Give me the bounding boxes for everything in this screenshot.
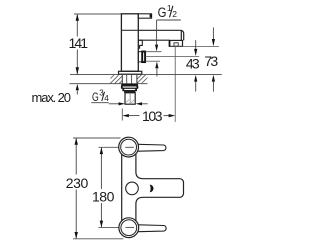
shank inner lines — [126, 75, 128, 84]
body strip and spout arm — [122, 150, 184, 225]
fitting top extension line — [145, 51, 161, 53]
fitting center extension line — [145, 56, 199, 58]
dim 180 bottom extension line — [99, 226, 125, 228]
top lever bar — [134, 144, 166, 151]
103 dim line with arrows — [122, 114, 129, 117]
G 3/4 leader line right — [142, 103, 148, 105]
dim 180 arrow up — [100, 147, 103, 154]
aerator outlet extension line — [170, 46, 219, 48]
fitting bottom extension line — [145, 60, 160, 62]
tail pipe thread marks — [126, 99, 134, 103]
dim 73 lower arrow up — [212, 75, 215, 82]
dim 73 upper stem — [212, 27, 214, 39]
bottom lever bar — [134, 225, 167, 232]
deck top line — [70, 74, 222, 76]
bottom handle outer circle — [119, 218, 139, 238]
dimension 141 line — [76, 14, 78, 36]
max 20 lower stem — [76, 90, 78, 94]
dim 43 lower arrow up — [194, 75, 197, 82]
aerator — [169, 40, 182, 46]
svg-text:2: 2 — [172, 9, 177, 19]
locknut top band — [121, 84, 138, 86]
svg-text:max. 20: max. 20 — [32, 90, 72, 105]
G 3/4 arrow left — [136, 102, 142, 105]
G 1/2 leader underline — [157, 19, 181, 21]
tail pipe centerline — [129, 93, 131, 104]
dimension 141 arrow down — [76, 67, 79, 74]
G 3/4 fraction slash — [102, 92, 105, 101]
G 1/2 lower arrow stem — [156, 68, 158, 76]
deck bottom line — [70, 83, 148, 85]
dim 73 lower stem — [212, 82, 214, 92]
dimension 141 arrow up — [76, 14, 79, 21]
lever handle — [138, 14, 151, 18]
103 left extension line — [121, 109, 123, 121]
deck hatching left — [110, 75, 122, 84]
indicator crescent — [150, 185, 154, 193]
svg-text:180: 180 — [92, 189, 115, 205]
locknut body — [122, 86, 138, 88]
base flange — [119, 71, 142, 74]
dim 180 line — [100, 148, 102, 189]
svg-text:G: G — [158, 5, 167, 20]
tail pipe — [125, 93, 135, 104]
dim 180 arrow down — [100, 221, 103, 228]
dim 230 arrow up — [75, 138, 78, 145]
dim 43 lower stem — [195, 82, 197, 92]
shank outer lines — [121, 75, 123, 84]
locknut second layer — [123, 88, 136, 90]
aerator inner detail — [174, 43, 178, 46]
spout outline — [138, 30, 183, 40]
svg-text:141: 141 — [69, 35, 89, 51]
bottom handle center tick — [126, 226, 135, 228]
G 3/4 underline — [91, 102, 109, 104]
aerator centerline — [174, 47, 176, 122]
svg-text:73: 73 — [204, 53, 218, 69]
dimension 141 extension line top — [74, 13, 121, 15]
deck hatching right — [137, 75, 147, 84]
dim 230 top extension line — [73, 137, 121, 139]
spout rear underside step — [139, 40, 142, 49]
aerator left edge — [169, 40, 171, 46]
svg-text:43: 43 — [186, 55, 200, 71]
bottom handle inner circle — [121, 220, 137, 236]
washer dark — [124, 91, 135, 93]
G 1/2 label text — [158, 3, 178, 20]
max 20 lower arrow up — [76, 84, 79, 90]
top handle outer circle — [119, 137, 139, 157]
top handle center tick — [125, 146, 134, 148]
G 1/2 arrow down — [155, 45, 158, 52]
G 3/4 leader line left — [109, 103, 121, 105]
top handle inner circle — [121, 139, 137, 155]
svg-text:G: G — [92, 92, 99, 104]
dim 230 bottom extension line — [73, 238, 123, 240]
faucet body — [121, 14, 138, 72]
dim 230 arrow down — [75, 232, 78, 239]
svg-text:103: 103 — [142, 108, 163, 124]
G 3/4 arrow right — [119, 102, 125, 105]
G 3/4 label text — [92, 89, 109, 104]
diverter circle — [126, 182, 139, 195]
G 1/2 lower arrow up — [155, 62, 158, 69]
G 1/2 leader vertical — [156, 20, 158, 45]
lever end block — [150, 14, 152, 17]
dim 43 upper stem — [195, 40, 197, 49]
body separator line — [121, 29, 138, 31]
dim 73 upper arrow down — [212, 39, 215, 46]
dim 230 line — [75, 138, 77, 174]
svg-text:4: 4 — [104, 94, 109, 103]
svg-text:230: 230 — [66, 175, 89, 191]
dim 180 top extension line — [99, 146, 125, 148]
fitting base — [138, 52, 142, 62]
fitting ring — [142, 52, 145, 63]
G 1/2 fraction slash — [170, 6, 173, 18]
dim 43 upper arrow down — [194, 49, 197, 56]
